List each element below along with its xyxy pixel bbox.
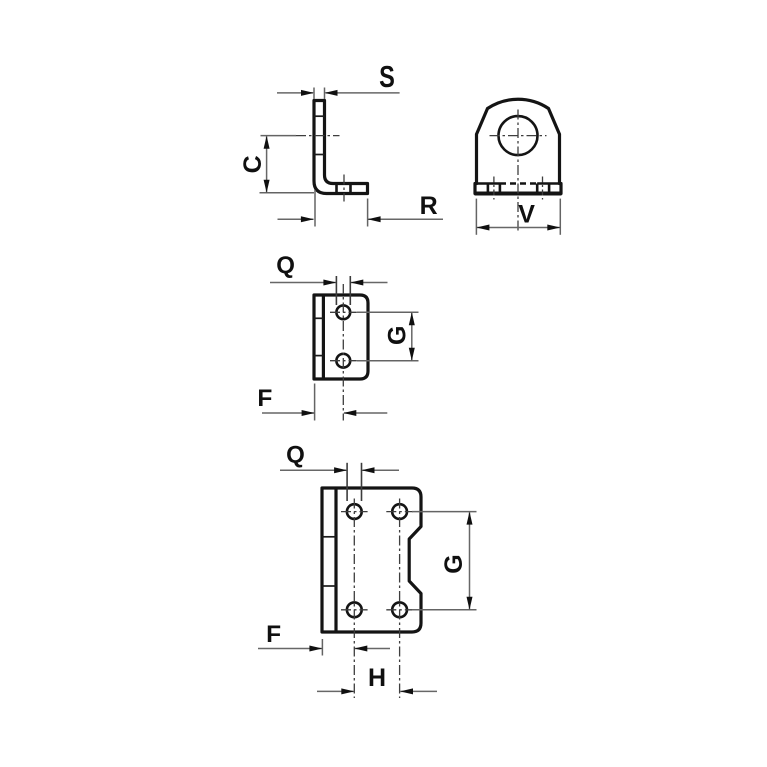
H arrow pointing right: [341, 688, 354, 694]
F arrow pointing left: [343, 410, 356, 416]
flange top edge hidden dashed middle: [500, 182, 537, 185]
svg-text:R: R: [420, 192, 438, 220]
flange top edge solid right: [537, 182, 559, 185]
svg-text:H: H: [368, 664, 386, 692]
G arrow down: [409, 348, 415, 361]
Q arrow pointing right: [334, 467, 347, 473]
top-right hole horizontal centerline: [386, 511, 413, 513]
S arrow pointing left: [325, 90, 338, 96]
C bottom extension line: [260, 192, 315, 194]
V extension line left: [475, 199, 477, 235]
top hole: [336, 305, 350, 319]
pivot hole horizontal centerline: [490, 135, 547, 137]
S extension line left: [313, 88, 315, 100]
clevis outline with dome and base flange: [475, 99, 561, 193]
hole edge lines in horizontal leg: [335, 184, 338, 194]
svg-text:C: C: [239, 155, 267, 173]
bottom hole: [336, 354, 350, 368]
R extension line left (bar left edge extended): [314, 190, 316, 227]
Q arrow pointing right: [323, 280, 336, 286]
V arrow pointing right: [547, 225, 560, 231]
F arrow pointing right: [302, 410, 315, 416]
strip tick upper: [314, 317, 323, 319]
F dimension line left part: [258, 648, 322, 650]
svg-text:F: F: [266, 621, 281, 648]
C arrow up: [264, 136, 270, 149]
main vertical centerline: [517, 110, 519, 234]
F dimension line left part: [262, 412, 314, 414]
F extension line (plate left edge extended): [314, 384, 316, 421]
strip tick lower: [322, 585, 336, 587]
G dimension line: [469, 513, 471, 610]
Q arrow pointing left: [350, 280, 363, 286]
C dimension line: [266, 137, 268, 193]
bottom hole horizontal centerline: [330, 360, 357, 362]
F extension line (plate left edge extended): [321, 639, 323, 656]
Q tangent extension line right: [361, 463, 363, 501]
bottom-left hole horizontal centerline: [341, 609, 368, 611]
G dimension line: [411, 313, 413, 360]
vertical centerline through both holes: [342, 284, 344, 421]
flange top edge solid left: [477, 182, 501, 185]
clevis base bottom heavy edge: [475, 192, 562, 196]
hole bottom-right: [392, 602, 407, 617]
top hole horizontal centerline: [330, 311, 357, 313]
leg hole centerline vertical (dash-dot): [343, 175, 345, 202]
left screw hole centerline: [493, 177, 495, 200]
H dimension line left part: [317, 690, 354, 692]
R arrow pointing left: [368, 216, 381, 222]
S arrow pointing right: [301, 90, 314, 96]
svg-text:V: V: [518, 200, 535, 228]
G extension line top: [357, 311, 419, 313]
svg-text:S: S: [379, 59, 395, 94]
flange division line 3: [536, 184, 539, 194]
right screw hole centerline: [542, 177, 544, 200]
F dimension line right part: [344, 412, 387, 414]
hole top-left: [347, 504, 362, 519]
C top extension line: [261, 135, 297, 137]
S dimension line right part: [326, 92, 400, 94]
folded edge inner line: [334, 488, 337, 632]
bend tick upper on vertical bar: [314, 115, 325, 117]
left column vertical centerline: [353, 499, 355, 699]
bottom-right hole horizontal centerline: [386, 609, 413, 611]
G arrow up: [409, 312, 415, 325]
hole centerline horizontal through bar (dash-dot): [296, 135, 340, 137]
G extension line bottom: [357, 360, 419, 362]
flange division line 2: [499, 184, 502, 194]
hole top-right: [392, 504, 407, 519]
L-bracket outline: [314, 101, 368, 194]
flange division line 4: [548, 184, 551, 194]
right column vertical centerline: [399, 499, 401, 699]
Q arrow pointing left: [362, 467, 375, 473]
clevis pivot hole: [499, 116, 538, 155]
G extension line bottom: [412, 609, 477, 611]
Q dimension line left part: [280, 469, 346, 471]
hole bottom-left: [347, 602, 362, 617]
R dimension line left part: [278, 218, 314, 220]
S extension line right: [324, 88, 326, 100]
R dimension line right part: [368, 218, 443, 220]
svg-text:G: G: [440, 554, 468, 573]
Q tangent extension line left: [335, 276, 337, 305]
plate outline: [314, 295, 368, 379]
H dimension line right part: [400, 690, 437, 692]
F arrow pointing right: [309, 646, 322, 652]
flange division line 1: [487, 184, 490, 194]
top-left hole horizontal centerline: [341, 511, 368, 513]
strip tick upper: [322, 536, 336, 538]
H arrow pointing left: [400, 688, 413, 694]
Q dimension line left part: [270, 282, 336, 284]
Q dimension line right part: [362, 469, 399, 471]
R arrow pointing right: [301, 216, 314, 222]
V arrow pointing left: [476, 225, 489, 231]
folded edge inner line: [322, 295, 325, 379]
strip tick lower: [314, 355, 323, 357]
R extension line right (leg end extended): [367, 199, 369, 227]
svg-text:Q: Q: [286, 442, 305, 469]
G arrow up: [467, 512, 473, 525]
Q dimension line right part: [351, 282, 388, 284]
bend tick lower on vertical bar: [314, 154, 325, 156]
F arrow pointing left: [354, 646, 367, 652]
svg-text:Q: Q: [276, 252, 295, 279]
G arrow down: [467, 597, 473, 610]
V dimension line: [477, 227, 560, 229]
plate outline with side notch: [322, 488, 421, 632]
Q tangent extension line left: [346, 463, 348, 501]
G extension line top: [412, 511, 477, 513]
svg-text:F: F: [257, 385, 272, 412]
F dimension line right part: [355, 648, 390, 650]
svg-text:G: G: [384, 326, 412, 345]
S dimension line left part: [277, 92, 313, 94]
Q tangent extension line right: [349, 276, 351, 305]
C arrow down: [264, 180, 270, 193]
V extension line right: [559, 199, 561, 235]
